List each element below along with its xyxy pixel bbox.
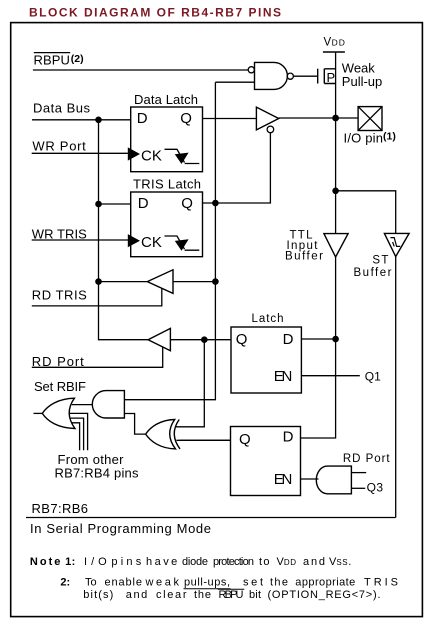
junction data bus / TRIS D [95,201,102,208]
wire latch1 EN to Q1 [301,375,359,377]
svg-text:WR Port: WR Port [32,139,86,154]
falling edge symbol TRIS Latch [165,236,200,250]
buffer TTL input triangle [324,234,348,257]
bubble tri-state enable [267,126,274,133]
junction TTL line / latch1 D [332,336,339,343]
svg-text:set: set [243,577,263,589]
svg-text:appropriate: appropriate [295,577,355,589]
svg-text:Q: Q [181,195,193,212]
svg-text:pull-ups,: pull-ups, [184,577,230,589]
wire TRIS D input [99,203,131,205]
svg-text:BLOCK DIAGRAM OF RB4-RB7 PINS: BLOCK DIAGRAM OF RB4-RB7 PINS [29,6,281,20]
wire WR TRIS to TRIS Latch CK [32,239,131,241]
bubble NAND top input [248,67,254,73]
buffer RD Port (tri-state, output left) [148,328,170,350]
junction data bus / D input [95,117,102,124]
svg-text:the: the [194,589,211,601]
svg-text:WR TRIS: WR TRIS [32,226,87,241]
junction TRIS Q / NAND branch [212,200,219,207]
wire branch to ST buffer [336,191,396,234]
wire XOR bottom input from latch2 Q [177,439,231,441]
svg-text:VSS.: VSS. [329,556,351,568]
svg-text:D: D [138,195,149,212]
wire data bus vertical [99,120,149,340]
svg-text:RBPU: RBPU [219,589,244,601]
and gate U6 (RD Port / Q3, output left) [316,466,351,494]
latch U2 TRIS Latch box [131,192,203,257]
svg-text:enable: enable [105,577,143,589]
latch U5 box (Q3 latch) [231,427,301,496]
transistor Q1 weak pull-up PFET [318,69,336,84]
svg-text:diode: diode [182,556,208,568]
wire VDD to FET and down to pin node [335,52,337,118]
wire latch2 Q to XOR input [180,439,231,441]
svg-text:protection: protection [213,556,254,568]
wire TTL buffer output down [301,257,336,438]
svg-text:Buffer: Buffer [285,251,323,263]
nand gate U3 (RBPU control) [255,62,288,89]
wire OR input from AND [72,404,92,406]
svg-text:and: and [303,556,325,568]
wire WR Port to Data Latch CK [32,152,131,154]
svg-text:bit(s): bit(s) [83,589,113,601]
junction vertical / RD TRIS input [212,278,219,285]
wire RD TRIS output to data bus [99,281,148,283]
svg-text:Set RBIF: Set RBIF [34,379,86,394]
bubble NAND output [287,73,293,79]
svg-text:Q: Q [180,110,192,127]
falling edge symbol Data Latch [165,149,200,163]
wire RD TRIS input [173,281,215,283]
svg-text:RBPU: RBPU [34,53,70,68]
svg-text:CK: CK [141,234,162,251]
clock wedge TRIS Latch [128,234,140,247]
svg-text:TRIS: TRIS [364,577,398,589]
svg-text:Q: Q [239,431,251,448]
svg-text:pins: pins [111,556,141,568]
svg-text:TRIS Latch: TRIS Latch [133,177,201,192]
hysteresis mark inside ST buffer [390,238,400,247]
wire OR input other pin 2 [70,418,83,450]
wire NAND bottom input [215,81,254,83]
svg-text:Latch: Latch [252,313,284,325]
wire NAND branch vertical [124,82,215,400]
or gate U7 Set RBIF (output left) [42,398,75,428]
svg-text:ST: ST [372,255,388,267]
svg-text:RD Port: RD Port [343,453,390,465]
svg-text:D: D [283,331,294,348]
svg-text:RB7:RB4 pins: RB7:RB4 pins [55,466,140,481]
wire Set RBIF output stub [34,412,43,414]
wire AND input Q3 [351,487,365,489]
junction data bus / RD TRIS out [95,278,102,285]
wire ST buffer output down to separator [395,257,397,518]
buffer ST triangle [384,233,409,256]
svg-text:P: P [327,70,336,85]
buffer RD TRIS (tri-state, output left) [147,270,173,294]
junction pin / ST branch [332,188,339,195]
svg-text:(2): (2) [71,53,84,65]
svg-text:D: D [283,429,294,446]
svg-text:RD TRIS: RD TRIS [32,288,87,303]
svg-text:I/O pin: I/O pin [344,131,384,146]
svg-text:Data Bus: Data Bus [33,101,91,116]
wire TRIS Q to tristate enable [203,133,271,203]
svg-text:Q3: Q3 [367,481,384,495]
latch U4 box (Q1 latch) [231,327,301,393]
svg-text:to: to [259,556,270,568]
clock wedge Data Latch [128,147,140,160]
wire XOR top input from latch1 Q [176,340,205,427]
svg-text:(1): (1) [383,130,396,142]
wire RD Port buffer input [170,339,231,341]
wire latch1 D input [301,338,335,340]
svg-text:Buffer: Buffer [354,267,392,279]
xor gate U9 (output left) [146,420,176,449]
svg-text:CK: CK [141,147,162,164]
svg-text:EN: EN [274,471,293,488]
wire latch2 EN from AND gate [301,478,319,480]
I/O pin box [358,107,382,131]
latch U1 Data Latch box [131,107,203,172]
wire OR input other pin 3 [71,423,79,450]
junction RD Port line / XOR branch [201,336,208,343]
inner separator line above In Serial Programming Mode [26,517,396,519]
wire OR input other pin 1 [69,413,87,450]
I/O pin box X diagonals [358,107,382,131]
power VDD rail bar [323,51,345,53]
wire AND input RD Port [351,472,366,474]
svg-text:VDD: VDD [277,556,297,568]
wire RD TRIS enable [32,288,162,306]
svg-text:weak: weak [145,577,180,589]
svg-text:Q: Q [236,331,248,348]
svg-text:Data Latch: Data Latch [134,92,198,107]
svg-text:1:: 1: [65,556,75,568]
svg-text:Q1: Q1 [365,370,381,384]
xor second arc [174,420,180,449]
svg-text:bit: bit [249,589,261,601]
svg-text:RB7:RB6: RB7:RB6 [32,501,89,516]
wire Data Bus to Data Latch D [32,119,131,121]
svg-text:EN: EN [274,368,293,385]
buffer output tri-state triangle [256,107,278,130]
svg-text:and: and [126,589,148,601]
overline RBPU in note [218,588,245,590]
svg-text:Pull-up: Pull-up [342,74,382,89]
svg-text:the: the [270,577,288,589]
svg-text:(OPTION_REG<7>).: (OPTION_REG<7>). [268,589,381,601]
wire Data Latch Q to output buffer [203,118,257,120]
wire RD Port enable [32,347,163,368]
wire pin vertical down to latches [335,118,337,234]
svg-text:clear: clear [156,589,187,601]
wire buffer output to pin [279,117,358,119]
svg-text:VDD: VDD [324,37,346,49]
svg-text:In Serial Programming Mode: In Serial Programming Mode [30,521,211,536]
svg-text:D: D [137,110,148,127]
svg-text:Note: Note [30,556,61,568]
and gate U8 (output left) [92,391,124,418]
junction pin node [332,115,339,122]
svg-text:To: To [85,577,97,589]
wire XOR output to AND input [124,414,145,435]
wire NAND output to FET gate [293,75,317,77]
wire RBPU to NAND top input [33,69,249,71]
svg-text:2:: 2: [60,577,70,589]
underline pull-ups [184,588,231,590]
